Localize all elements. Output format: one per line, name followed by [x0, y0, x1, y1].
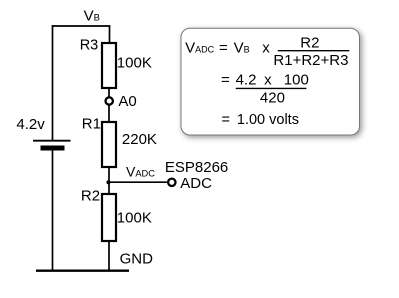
resistor R1 [102, 122, 116, 167]
resistor R3 [102, 43, 116, 88]
svg-text:=: = [221, 71, 230, 88]
svg-text:4.2: 4.2 [236, 71, 257, 88]
wire: VADC node to ADC pin [109, 181, 167, 183]
formula fraction 1 bar [278, 50, 350, 52]
svg-text:420: 420 [260, 90, 285, 107]
wire: R1 to VADC junction [108, 167, 110, 182]
node A0 terminal circle [106, 97, 113, 104]
svg-text:x: x [262, 40, 270, 57]
wire: top horizontal VB rail [52, 25, 111, 27]
svg-text:A0: A0 [118, 93, 136, 110]
wire: R2 down to ground rail [108, 240, 110, 271]
svg-text:R1: R1 [82, 116, 101, 133]
svg-text:=: = [222, 112, 230, 128]
formula fraction 2 bar [236, 87, 307, 89]
battery BT1 negative plate [41, 146, 65, 151]
wire: battery positive up left side [52, 25, 54, 140]
svg-text:1.00 volts: 1.00 volts [237, 112, 299, 128]
svg-text:R2: R2 [81, 187, 100, 204]
svg-text:100K: 100K [117, 54, 152, 71]
svg-text:R1+R2+R3: R1+R2+R3 [273, 52, 348, 69]
svg-text:=: = [219, 40, 228, 57]
svg-text:100K: 100K [117, 209, 152, 226]
svg-text:220K: 220K [122, 131, 157, 148]
ground rail [36, 270, 129, 272]
svg-text:ADC: ADC [180, 175, 212, 192]
resistor R2 [102, 194, 116, 241]
svg-text:R3: R3 [80, 37, 99, 53]
svg-text:4.2v: 4.2v [16, 116, 45, 133]
svg-text:GND: GND [120, 250, 154, 267]
junction dot VADC node [106, 180, 110, 184]
wire: A0 node to R1 [108, 105, 110, 123]
battery BT1 positive plate [33, 140, 71, 142]
svg-text:x: x [264, 71, 272, 88]
wire: battery negative down left side [52, 150, 54, 271]
svg-text:R2: R2 [300, 35, 319, 52]
svg-text:100: 100 [284, 71, 309, 88]
wire: VADC junction down to R2 [108, 182, 110, 195]
svg-text:ESP8266: ESP8266 [165, 159, 228, 176]
wire: R3 bottom to A0 node [108, 88, 110, 97]
svg-text:VB: VB [84, 8, 100, 25]
wire: down from VB rail to R3 [109, 25, 111, 43]
svg-text:VADC: VADC [126, 163, 155, 179]
formula note box [181, 28, 360, 135]
ADC pin terminal circle [168, 179, 175, 186]
